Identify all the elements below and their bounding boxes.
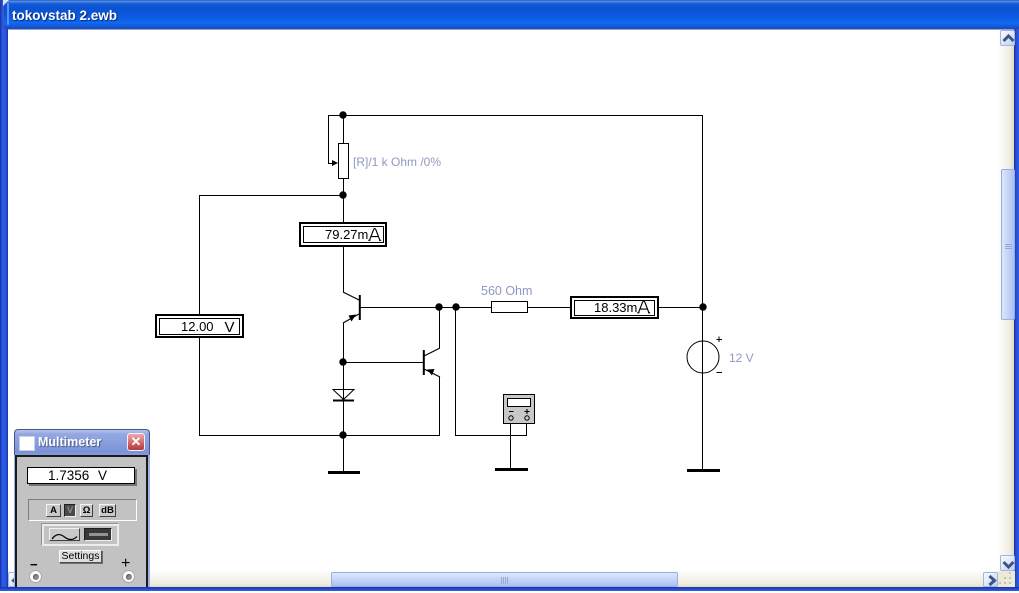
svg-text:[R]/1 k Ohm /0%: [R]/1 k Ohm /0%: [353, 155, 441, 169]
svg-text:18.33m: 18.33m: [594, 300, 637, 315]
svg-text:12 V: 12 V: [729, 351, 754, 365]
svg-text:12.00: 12.00: [181, 319, 214, 334]
svg-text:V: V: [225, 319, 235, 336]
svg-text:79.27m: 79.27m: [325, 227, 368, 242]
svg-text:560 Ohm: 560 Ohm: [481, 284, 532, 298]
